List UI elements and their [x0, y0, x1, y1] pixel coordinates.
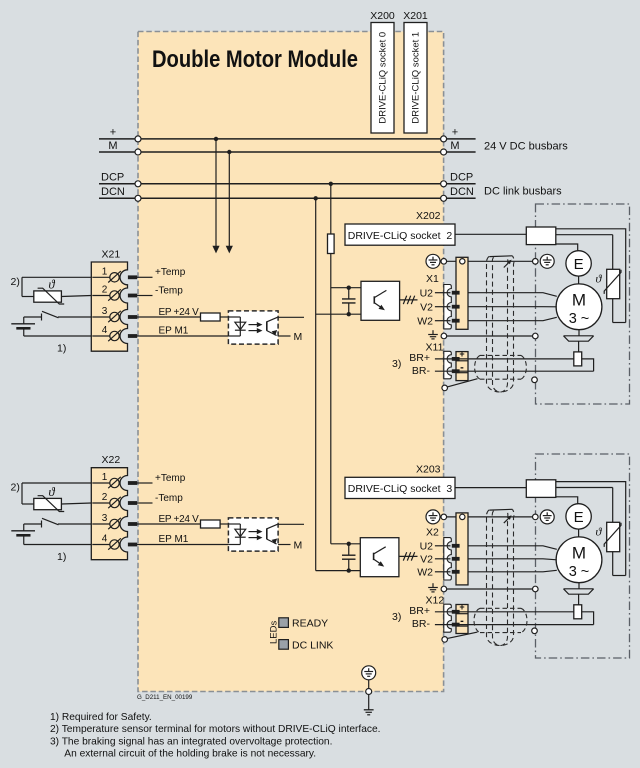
svg-text:3 ~: 3 ~ [569, 311, 590, 327]
svg-text:EP +24 V: EP +24 V [159, 514, 200, 525]
motor M 3~ [556, 284, 602, 330]
BR+ wire [435, 357, 574, 361]
PE terminal right [540, 510, 554, 524]
svg-text:3: 3 [102, 513, 108, 524]
safety switch and 24V source external [11, 518, 91, 544]
node on module edge right, busbar DCN [441, 195, 447, 201]
phase U2 wire [420, 287, 557, 299]
wire M drop with arrow [226, 150, 233, 254]
motor enclosure dash-dot box [536, 204, 630, 404]
wire encoder to motor [578, 529, 580, 537]
motor signal connector box [526, 480, 556, 498]
svg-text:3 ~: 3 ~ [569, 564, 590, 580]
svg-text:M: M [294, 331, 303, 343]
svg-text:DCN: DCN [101, 186, 125, 198]
shield contact arrow [504, 515, 512, 523]
svg-text:V2: V2 [420, 553, 433, 565]
node on module edge right, busbar + [441, 136, 447, 142]
svg-text:-Temp: -Temp [155, 285, 183, 296]
svg-text:X201: X201 [403, 10, 428, 22]
svg-text:24 V DC busbars: 24 V DC busbars [484, 140, 568, 152]
svg-text:1: 1 [102, 267, 108, 278]
LED indicators [269, 618, 334, 652]
motor M 3~ [556, 537, 602, 583]
motor cable shield tube [486, 510, 514, 646]
optocoupler isolation for X21 EP input [228, 311, 278, 344]
node on module edge left, busbar DCN [135, 195, 141, 201]
BR+ wire [435, 610, 574, 614]
LED READY [279, 618, 289, 628]
svg-text:3): 3) [392, 358, 401, 370]
connector X200 DRIVE-CLiQ socket 0 [370, 10, 395, 133]
svg-text:DCN: DCN [450, 186, 474, 198]
svg-text:W2: W2 [417, 566, 433, 578]
shield wire bottom [441, 586, 538, 592]
signal +Temp [137, 473, 186, 484]
thermistor KTY in motor [596, 522, 626, 575]
shield wire bottom [441, 333, 538, 339]
svg-text:M: M [108, 140, 117, 152]
svg-text:X2: X2 [426, 526, 439, 538]
svg-text:4: 4 [102, 534, 108, 545]
connector X201 DRIVE-CLiQ socket 1 [403, 10, 428, 133]
svg-text:+: + [459, 349, 464, 359]
svg-text:X22: X22 [102, 454, 121, 466]
terminal pin 2 of X21 (screw symbol and contact pad) [92, 285, 137, 301]
svg-text:BR+: BR+ [409, 352, 430, 364]
PE terminal right [540, 254, 554, 268]
signal EP +24 V with series resistor [137, 307, 228, 321]
svg-text:M: M [572, 290, 586, 309]
terminal pin 2 of X22 (screw symbol and contact pad) [92, 492, 137, 508]
transistor switch symbol inside U20 [373, 553, 375, 560]
phase V2 wire [420, 301, 557, 313]
signal EP M1 [137, 534, 228, 545]
PE terminal left [426, 510, 440, 524]
phototransistor of optocoupler [266, 321, 268, 330]
svg-text:X1: X1 [426, 273, 439, 285]
wire DCN drop [314, 196, 318, 570]
shield tube top lid [489, 255, 512, 258]
svg-text:DCP: DCP [450, 172, 473, 184]
svg-text:4: 4 [102, 325, 108, 336]
svg-text:V2: V2 [420, 301, 433, 313]
svg-text:DRIVE-CLiQ socket 2: DRIVE-CLiQ socket 2 [348, 230, 453, 242]
wire to encoder [556, 497, 578, 504]
svg-text:DRIVE-CLiQ socket 0: DRIVE-CLiQ socket 0 [378, 32, 389, 124]
wire to encoder [556, 244, 578, 251]
svg-text:DC link busbars: DC link busbars [484, 186, 562, 198]
svg-text:X203: X203 [416, 463, 441, 475]
node on module edge left, busbar DCP [135, 181, 141, 187]
svg-text:2) Temperature sensor terminal: 2) Temperature sensor terminal for motor… [50, 724, 380, 735]
svg-text:3: 3 [102, 306, 108, 317]
busbar DCN [99, 186, 476, 201]
holding brake coil [564, 330, 594, 372]
capacitor C (DC link) for U10 [342, 286, 356, 317]
svg-text:BR+: BR+ [409, 605, 430, 617]
holding brake coil [564, 583, 594, 625]
terminal pin 1 of X22 (screw symbol and contact pad) [92, 472, 137, 488]
svg-text:3) The braking signal has an i: 3) The braking signal has an integrated … [50, 736, 332, 747]
output wire with 3-phase slashes for U20 [399, 552, 418, 560]
node on module edge right, busbar DCP [441, 181, 447, 187]
svg-text:EP M1: EP M1 [159, 534, 189, 545]
phase W2 wire [417, 566, 557, 578]
terminal X12 brake [392, 594, 468, 633]
svg-text:+Temp: +Temp [155, 267, 186, 278]
shield wire top [441, 259, 538, 265]
temperature sensor (thermistor) external [22, 483, 91, 512]
svg-text:M: M [450, 140, 459, 152]
shield contact arrow [504, 260, 512, 268]
signal -Temp [137, 493, 183, 504]
terminal pin 1 of X21 (screw symbol and contact pad) [92, 267, 137, 283]
svg-text:1) Required for Safety.: 1) Required for Safety. [50, 712, 152, 723]
emitter output wire to M [278, 331, 302, 343]
brake cable shield [475, 355, 527, 379]
svg-text:-Temp: -Temp [155, 493, 183, 504]
brake shield bond diagonal to PE node [442, 632, 478, 642]
svg-text:G_D211_EN_00199: G_D211_EN_00199 [137, 694, 193, 701]
node on module edge right, busbar M [441, 149, 447, 155]
shield tube top lid [489, 508, 512, 511]
svg-text:3): 3) [392, 611, 401, 623]
shield wire top [441, 514, 538, 520]
svg-text:An external circuit of the hol: An external circuit of the holding brake… [64, 749, 316, 760]
capacitor C (DC link) for U20 [342, 542, 356, 573]
wire encoder to motor [578, 276, 580, 284]
wire 24V + drop with arrow [212, 137, 219, 254]
svg-text:U2: U2 [420, 540, 434, 552]
terminal X11 brake [392, 341, 468, 380]
svg-text:BR-: BR- [412, 365, 431, 377]
PE terminal left [426, 254, 440, 268]
svg-text:ϑ: ϑ [49, 485, 56, 499]
svg-text:2: 2 [102, 285, 108, 296]
wire socket to motor connector [455, 233, 526, 235]
svg-text:EP M1: EP M1 [159, 326, 189, 337]
svg-text:DCP: DCP [101, 172, 124, 184]
encoder E [566, 504, 591, 529]
wire to temp loop outer [556, 482, 626, 576]
svg-text:+Temp: +Temp [155, 473, 186, 484]
encoder E [566, 251, 591, 276]
svg-text:X202: X202 [416, 210, 441, 222]
module edge connector bumps (power) [444, 538, 452, 580]
phase W2 wire [417, 315, 557, 327]
connector DRIVE-CLiQ socket&#160; 3 box [345, 477, 455, 498]
wire to temp loop inner [556, 234, 613, 236]
svg-text:+: + [459, 602, 464, 612]
Double Motor Module enclosure (dashed tan box) [138, 32, 444, 692]
temperature sensor (thermistor) external [22, 277, 91, 304]
wire socket to motor connector [455, 487, 526, 489]
phase U2 wire [420, 540, 557, 552]
svg-text:X200: X200 [370, 10, 395, 22]
motor cable shield tube [486, 256, 514, 392]
svg-text:2): 2) [11, 276, 20, 288]
brake shield node right [532, 377, 538, 383]
motor signal connector box [526, 227, 556, 245]
collector output wire [277, 316, 304, 318]
motor enclosure dash-dot box [536, 454, 630, 658]
svg-text:DRIVE-CLiQ socket 1: DRIVE-CLiQ socket 1 [411, 32, 422, 124]
emitter output wire to M [278, 539, 302, 551]
terminal pin 3 of X21 (screw symbol and contact pad) [92, 306, 137, 322]
power unit U20 (motor inverter) [316, 538, 399, 577]
fuse F1 on DCP drop [328, 234, 335, 254]
svg-text:X21: X21 [102, 249, 121, 261]
earth ground symbol [364, 710, 374, 715]
svg-text:EP +24 V: EP +24 V [159, 307, 200, 318]
svg-text:E: E [574, 256, 584, 273]
terminal strip X1 [426, 257, 468, 329]
busbar M [99, 140, 476, 155]
svg-text:2: 2 [102, 492, 108, 503]
LED DC LINK [279, 640, 289, 650]
svg-text:1): 1) [57, 551, 66, 563]
phototransistor of optocoupler [266, 528, 268, 539]
brake shield node right [532, 628, 538, 634]
safety switch and 24V source external [11, 311, 91, 336]
svg-text:W2: W2 [417, 315, 433, 327]
power unit U10 (motor inverter) [316, 281, 400, 320]
svg-text:1): 1) [57, 343, 66, 355]
output wire with 3-phase slashes for U10 [400, 296, 418, 304]
svg-text:1: 1 [102, 472, 108, 483]
signal EP +24 V with series resistor [137, 514, 228, 528]
busbar + [99, 127, 476, 142]
signal -Temp [137, 285, 183, 296]
svg-text:M: M [572, 543, 586, 562]
svg-text:DC LINK: DC LINK [292, 639, 333, 651]
svg-text:+: + [452, 127, 458, 139]
node on module edge left, busbar M [135, 149, 141, 155]
svg-text:LEDs: LEDs [269, 621, 280, 644]
connector DRIVE-CLiQ socket&#160; 2 box [345, 224, 455, 245]
svg-text:+: + [110, 127, 116, 139]
svg-text:READY: READY [292, 618, 328, 630]
wire to temp loop outer [556, 229, 626, 323]
terminal pin 3 of X22 (screw symbol and contact pad) [92, 513, 137, 529]
terminal pin 4 of X21 (screw symbol and contact pad) [92, 325, 137, 341]
LED emitter diode of optocoupler [228, 523, 240, 525]
thermistor KTY in motor [596, 269, 626, 322]
PE terminal bottom [362, 666, 376, 680]
brake cable shield [474, 608, 527, 632]
svg-text:DRIVE-CLiQ socket 3: DRIVE-CLiQ socket 3 [348, 483, 453, 495]
svg-text:U2: U2 [420, 287, 434, 299]
wire to temp loop inner [556, 487, 613, 489]
PE wire to earth [366, 680, 372, 710]
terminal block X21 [91, 249, 137, 352]
signal EP M1 [137, 326, 228, 337]
phase V2 wire [420, 553, 557, 565]
collector output wire [277, 523, 304, 525]
BR- wire [435, 369, 594, 373]
earth symbol below strip [428, 583, 438, 592]
BR- wire [435, 623, 594, 627]
svg-text:ϑ: ϑ [49, 278, 56, 292]
svg-text:BR-: BR- [412, 618, 431, 630]
signal +Temp [137, 267, 186, 278]
module edge connector bumps (power) [444, 285, 452, 329]
node on module edge left, busbar + [135, 136, 141, 142]
svg-text:Double Motor Module: Double Motor Module [152, 46, 358, 73]
earth symbol below strip [428, 330, 438, 339]
terminal strip X2 [426, 513, 468, 585]
svg-text:2): 2) [11, 482, 20, 494]
wire DCP drop [329, 182, 333, 544]
optocoupler isolation for X22 EP input [228, 518, 278, 551]
terminal pin 4 of X22 (screw symbol and contact pad) [92, 534, 137, 550]
brake shield bond diagonal to PE node [442, 379, 478, 391]
busbar DCP [99, 172, 476, 187]
terminal block X22 [91, 454, 137, 560]
svg-text:E: E [574, 509, 584, 526]
svg-text:M: M [294, 539, 303, 551]
LED emitter diode of optocoupler [228, 316, 240, 318]
transistor switch symbol inside U10 [373, 296, 375, 303]
